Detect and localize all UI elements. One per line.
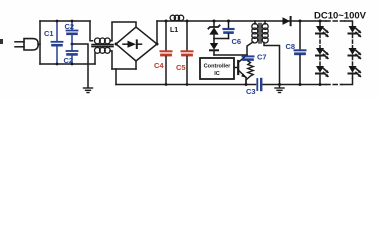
diode D2 (210, 39, 218, 56)
svg-text:C3: C3 (246, 87, 256, 96)
node dot bridge right vertex (156, 43, 159, 46)
wire choke bottom-right down (110, 51, 112, 69)
wire bottom rail B (116, 84, 256, 86)
ground (earth) left (84, 88, 93, 93)
wire left vertical (39, 21, 41, 64)
node dot emitter (245, 83, 248, 86)
capacitor C8 (295, 21, 306, 85)
capacitor C3 (series in rail) (257, 79, 261, 90)
node dot C1 bottom (56, 63, 59, 66)
secondary winding (262, 24, 268, 30)
svg-text:C5: C5 (176, 63, 186, 72)
capacitor C2 upper (67, 21, 78, 44)
AC plug (15, 39, 40, 50)
node dot C2 bottom (71, 63, 74, 66)
wire bottom rail A (40, 63, 95, 65)
inductor L1 (170, 15, 184, 20)
wire to switch node (214, 54, 247, 56)
wire bottom rail B right part (263, 84, 326, 86)
wire zener to C6 (214, 38, 229, 40)
svg-text:C6: C6 (232, 37, 242, 46)
transformer T1 (252, 24, 268, 44)
diode D1 output (283, 17, 291, 25)
node dot C1 top (56, 20, 59, 23)
wire bottom rail to LED string 2 (342, 78, 353, 85)
wire primary top to rail (254, 21, 256, 24)
wire primary bottom to switch node (247, 42, 253, 55)
svg-text:C7: C7 (257, 53, 267, 62)
wire choke top descent (90, 21, 93, 41)
controller IC box (200, 58, 234, 79)
svg-text:C1: C1 (44, 29, 54, 38)
wire C2 midpoint to earth (72, 44, 88, 87)
wire top rail B (157, 20, 326, 22)
LED string 1 (316, 21, 329, 85)
wire choke bottom-left to rail A (94, 53, 96, 64)
svg-text:L1: L1 (170, 27, 178, 34)
bridge diode symbol (123, 40, 142, 48)
node dot C5 bottom (186, 83, 189, 86)
svg-text:C8: C8 (286, 42, 296, 51)
node dot LED string1 bottom (319, 83, 322, 86)
node dot bridge left vertex (115, 43, 118, 46)
node dot C2 top (71, 20, 74, 23)
capacitor C4 (161, 21, 172, 85)
wire DC+ riser (156, 21, 158, 44)
node dot C2 mid (71, 43, 74, 46)
node dot C6 top (227, 20, 230, 23)
inductor CM choke bottom winding (95, 48, 111, 54)
node dot C4 bottom (165, 83, 168, 86)
node dot C8 top (299, 20, 302, 23)
capacitor C6 (224, 21, 234, 39)
zener diode chain (208, 21, 219, 39)
transistor Q1 (234, 55, 247, 85)
svg-text:Controller: Controller (204, 64, 232, 70)
capacitor C2 lower (67, 44, 78, 64)
svg-text:C2: C2 (65, 22, 75, 31)
wire AC2 horizontal (112, 68, 136, 70)
capacitor C1 (52, 21, 63, 64)
wire choke top-right riser (110, 22, 136, 41)
wire secondary top to rail (264, 21, 266, 24)
wire bottom rail dashed segment (326, 84, 342, 86)
node dot zener top (213, 20, 216, 23)
node dot C8 bottom (299, 83, 302, 86)
primary winding (252, 24, 258, 30)
wire top rail A (40, 20, 90, 22)
wire top rail to LED string 2 (345, 21, 353, 26)
capacitor C5 (182, 21, 193, 85)
resistor R1 (246, 61, 253, 85)
bridge rectifier (116, 27, 157, 61)
edge artifact (0, 39, 3, 44)
wire top rail dashed segment (326, 20, 345, 22)
svg-text:DC10~100V: DC10~100V (314, 11, 367, 22)
wire bridge bottom vertex down (135, 61, 137, 69)
transformer core (258, 24, 260, 44)
node dot LED string1 top (319, 20, 322, 23)
choke core (92, 44, 113, 46)
wire secondary bottom (264, 43, 280, 85)
node dot L1 right (186, 20, 189, 23)
svg-text:IC: IC (214, 71, 220, 77)
ground (bottom rail) (278, 83, 281, 86)
inductor CM choke top winding (95, 38, 111, 44)
node dot L1 left (165, 20, 168, 23)
svg-text:C4: C4 (154, 61, 164, 70)
capacitor C7 (243, 56, 254, 59)
wire DC- riser to bottom rail (115, 69, 117, 85)
LED string 2 (349, 26, 362, 78)
